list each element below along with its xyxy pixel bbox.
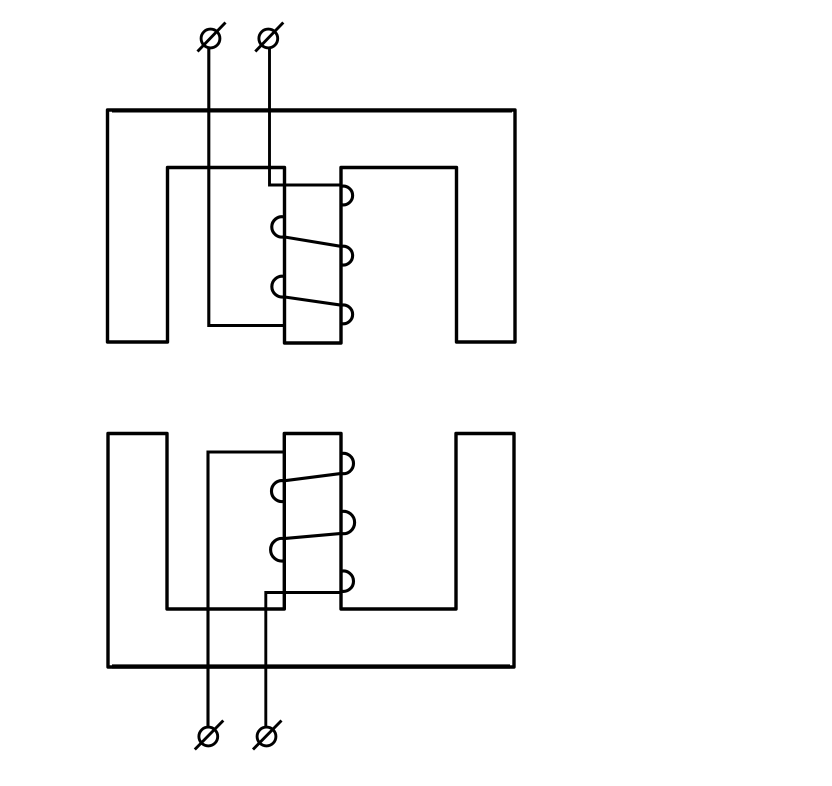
core E2 bottom edge overdraw (heavy scanned stroke) — [112, 664, 510, 668]
winding W1 turn 2 (left bump, front diagonal, right bump) — [272, 217, 353, 265]
terminal T1 (top left, slashed circle) — [198, 23, 226, 52]
core E1 (upper E-core, opening downward, with center leg) — [108, 110, 516, 343]
winding W1 turn 1 arc (right bump at top wire) — [341, 186, 352, 205]
terminal T2 (top right, slashed circle) — [255, 23, 283, 52]
winding W2 turn 3 arc (right bump joining bottom wire) — [341, 571, 353, 591]
winding W1 turn 3 (left bump, front diagonal, right bump) — [272, 276, 353, 324]
core E1 top edge overdraw (heavy scanned stroke) — [112, 109, 512, 113]
terminal T4 (bottom right, slashed circle) — [253, 721, 282, 750]
wire: lead from terminal T4 up to bottom of lower winding — [266, 593, 342, 728]
terminal T3 (bottom left, slashed circle) — [195, 721, 224, 750]
wire: lead from terminal T3 up to top of lower winding — [208, 452, 284, 727]
wire: lead from terminal T2 down to top of upper winding — [270, 48, 342, 185]
winding W2 turn 2 (right bump, front diagonal, left bump) — [271, 511, 355, 561]
winding W2 turn 1 (right bump, front diagonal, left bump) — [271, 453, 353, 501]
wire: lead from terminal T1 down to bottom of upper winding — [209, 48, 285, 326]
core E2 (lower E-core, opening upward, with center leg) — [108, 434, 514, 668]
